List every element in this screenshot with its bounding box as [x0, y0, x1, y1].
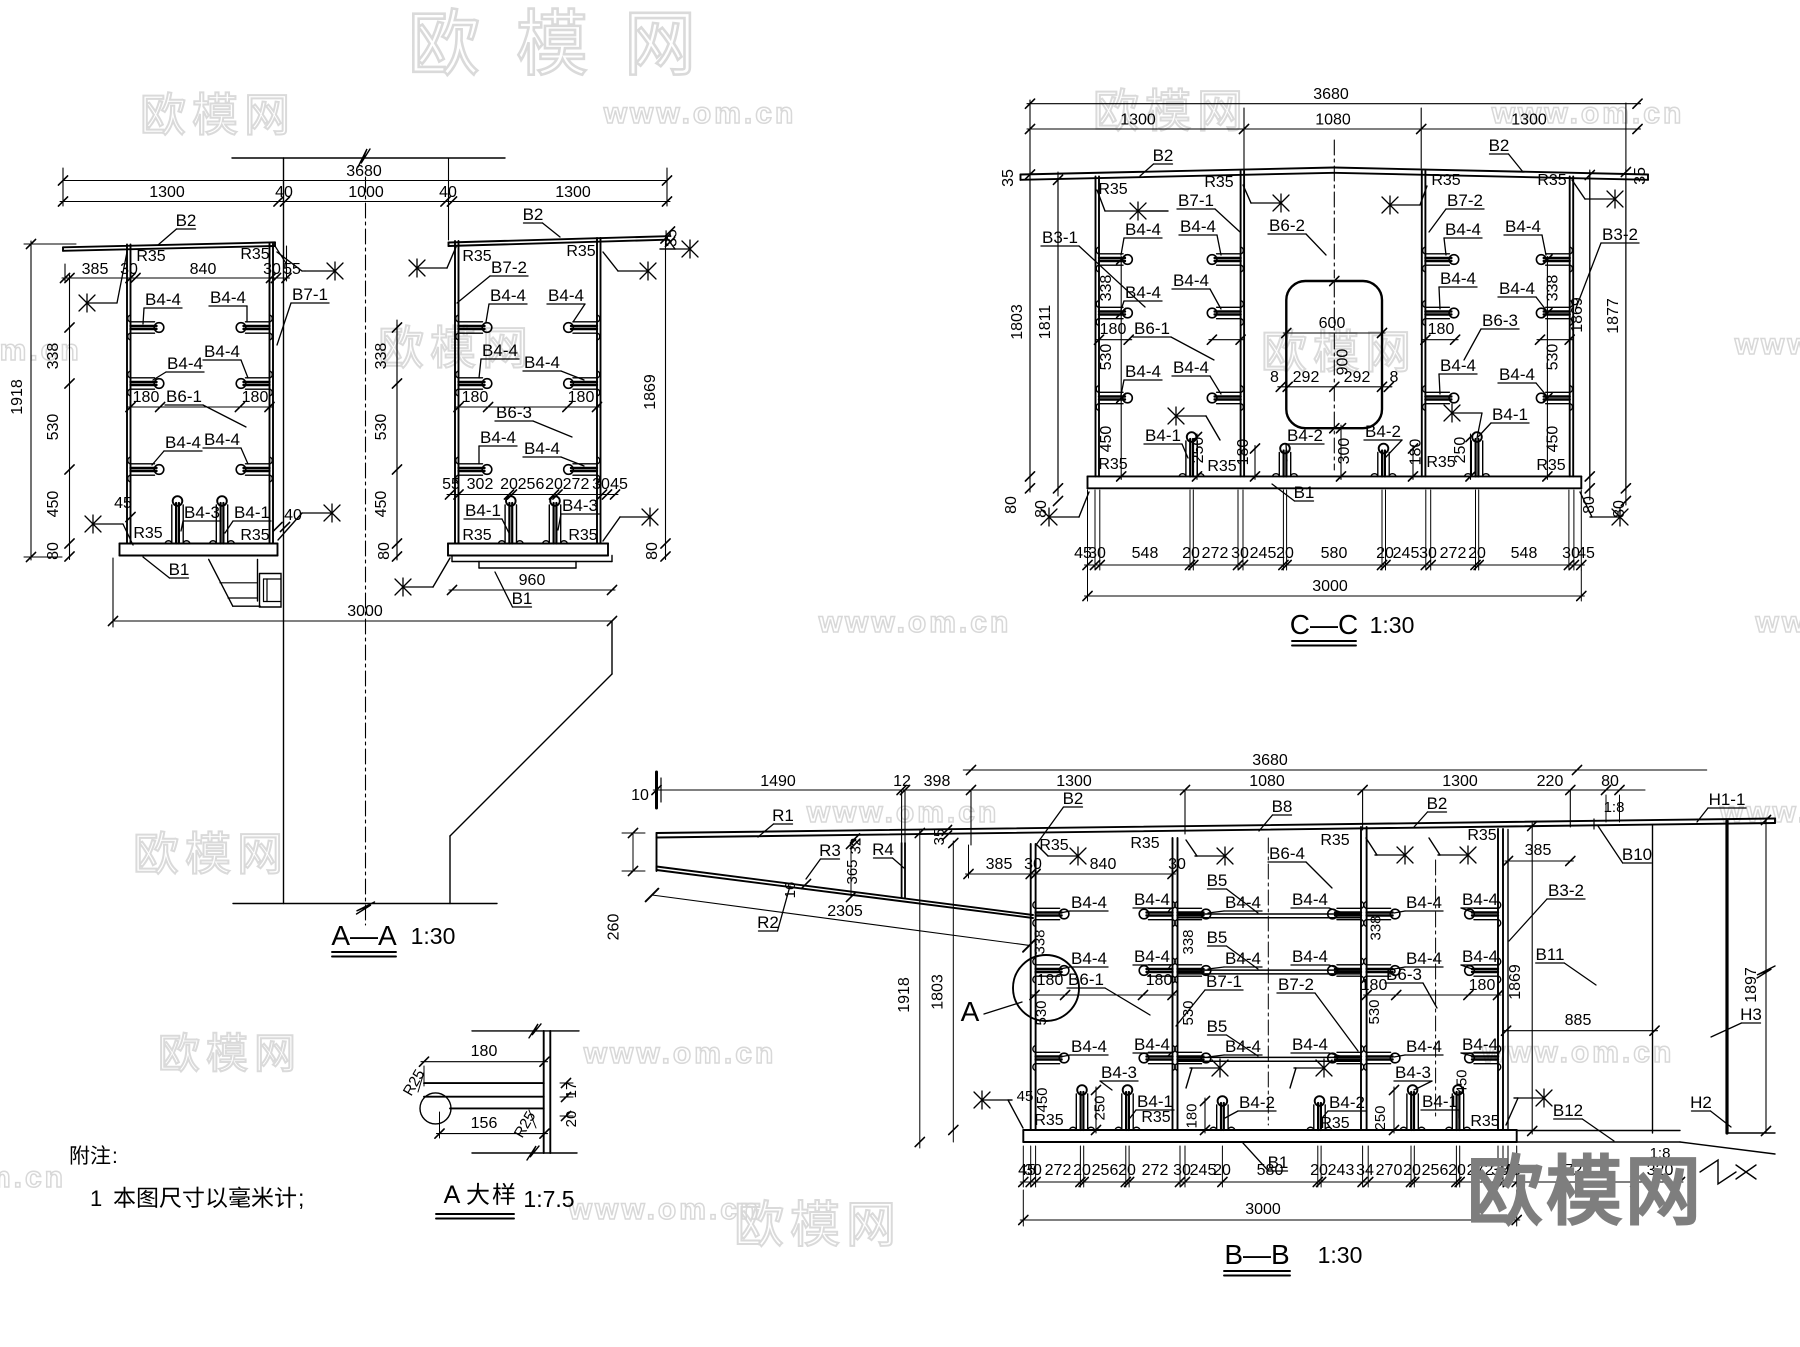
svg-text:B4-4: B4-4	[210, 288, 246, 307]
svg-text:55: 55	[442, 476, 460, 493]
svg-text:B4-4: B4-4	[482, 341, 518, 360]
svg-text:548: 548	[1511, 545, 1538, 562]
svg-text:B4-4: B4-4	[167, 354, 203, 373]
svg-text:580: 580	[1321, 545, 1348, 562]
svg-text:B4-1: B4-1	[465, 501, 501, 520]
svg-text:B7-2: B7-2	[1447, 191, 1483, 210]
svg-text:17: 17	[563, 1082, 580, 1099]
svg-text:1300: 1300	[1442, 773, 1478, 790]
svg-text:260: 260	[606, 914, 623, 941]
svg-text:272: 272	[1045, 1162, 1072, 1179]
svg-text:32: 32	[847, 838, 864, 855]
svg-text:20: 20	[1073, 1162, 1091, 1179]
svg-text:30: 30	[1024, 856, 1042, 873]
svg-text:30: 30	[592, 476, 610, 493]
svg-text:B11: B11	[1536, 945, 1565, 964]
svg-text:www: www	[1754, 606, 1800, 639]
svg-text:B1: B1	[1294, 483, 1315, 502]
svg-text:256: 256	[1092, 1162, 1119, 1179]
svg-text:450: 450	[1098, 426, 1115, 453]
svg-text:B4-4: B4-4	[524, 439, 560, 458]
svg-text:8: 8	[1270, 369, 1279, 386]
svg-text:245: 245	[1250, 545, 1277, 562]
svg-text:;: ;	[298, 1185, 304, 1211]
svg-text:B4-4: B4-4	[1440, 356, 1476, 375]
svg-text:1803: 1803	[1009, 304, 1026, 340]
svg-text:B4-4: B4-4	[145, 290, 181, 309]
svg-text:B4-3: B4-3	[1101, 1063, 1137, 1082]
svg-text:338: 338	[373, 343, 390, 370]
svg-text:180: 180	[1146, 972, 1173, 989]
svg-text:20: 20	[545, 476, 563, 493]
svg-text:B6-1: B6-1	[166, 387, 202, 406]
svg-text:B4-4: B4-4	[1134, 947, 1170, 966]
svg-text:35: 35	[931, 829, 948, 846]
svg-text:3680: 3680	[1252, 752, 1288, 769]
svg-text:B4-4: B4-4	[1134, 890, 1170, 909]
svg-text:450: 450	[45, 491, 62, 518]
svg-text:1080: 1080	[1315, 112, 1351, 129]
svg-text:3000: 3000	[347, 603, 383, 620]
svg-text:1803: 1803	[930, 974, 947, 1010]
svg-text:B4-4: B4-4	[1180, 217, 1216, 236]
svg-text:250: 250	[1092, 1095, 1109, 1120]
svg-text:R35: R35	[240, 246, 269, 263]
svg-text:B7-1: B7-1	[1178, 191, 1214, 210]
svg-text:B4-1: B4-1	[1422, 1092, 1458, 1111]
svg-text:45: 45	[610, 476, 628, 493]
svg-text:35: 35	[1632, 167, 1649, 185]
svg-text:45: 45	[1577, 545, 1595, 562]
svg-text:R35: R35	[1467, 827, 1496, 844]
svg-text:272: 272	[1142, 1162, 1169, 1179]
svg-text:20: 20	[1118, 1162, 1136, 1179]
svg-text:B7-2: B7-2	[491, 258, 527, 277]
svg-text:1490: 1490	[760, 773, 796, 790]
svg-text:840: 840	[1090, 856, 1117, 873]
svg-text:B4-4: B4-4	[548, 286, 584, 305]
svg-text:580: 580	[1257, 1162, 1284, 1179]
svg-text:1918: 1918	[896, 977, 913, 1013]
svg-text:530: 530	[1366, 999, 1383, 1024]
svg-text:R3: R3	[819, 841, 841, 860]
svg-text:292: 292	[1293, 369, 1320, 386]
svg-text:450: 450	[373, 491, 390, 518]
svg-text:450: 450	[1034, 1087, 1051, 1112]
svg-text:30: 30	[263, 261, 281, 278]
svg-text:B6-3: B6-3	[1482, 311, 1518, 330]
svg-text:H2: H2	[1690, 1093, 1712, 1112]
svg-text:338: 338	[45, 343, 62, 370]
svg-text:B4-1: B4-1	[234, 503, 270, 522]
svg-text:B2: B2	[1153, 146, 1174, 165]
svg-text:www.om.cn: www.om.cn	[806, 796, 1000, 829]
svg-text:530: 530	[1545, 344, 1562, 371]
svg-text:20: 20	[500, 476, 518, 493]
svg-text:530: 530	[1098, 344, 1115, 371]
svg-text:80: 80	[45, 542, 62, 560]
svg-text:256: 256	[518, 476, 545, 493]
svg-text:20: 20	[1276, 545, 1294, 562]
svg-text:m.cn: m.cn	[0, 1161, 66, 1194]
svg-text:180: 180	[568, 389, 595, 406]
svg-text:B4-1: B4-1	[1492, 405, 1528, 424]
svg-text:12: 12	[893, 773, 911, 790]
svg-text:2305: 2305	[827, 903, 863, 920]
svg-text:R35: R35	[1039, 837, 1068, 854]
svg-text:www.om.cn: www.om.cn	[1481, 1036, 1675, 1069]
svg-text:R35: R35	[1470, 1113, 1499, 1130]
svg-text:1869: 1869	[1569, 297, 1586, 333]
svg-text:R35: R35	[1431, 172, 1460, 189]
svg-text:1:8: 1:8	[1604, 799, 1625, 816]
svg-text:A: A	[961, 996, 980, 1027]
svg-text:1:30: 1:30	[1318, 1242, 1363, 1268]
svg-text:270: 270	[1376, 1162, 1403, 1179]
svg-text:B4-4: B4-4	[1440, 269, 1476, 288]
svg-text:1:30: 1:30	[1370, 612, 1415, 638]
svg-text:10: 10	[631, 787, 649, 804]
svg-text:530: 530	[373, 414, 390, 441]
svg-text:B—B: B—B	[1224, 1239, 1289, 1270]
svg-text:80: 80	[376, 542, 393, 560]
svg-text:600: 600	[1319, 315, 1346, 332]
svg-text:300: 300	[1336, 438, 1353, 465]
svg-text:www.om.cn: www.om.cn	[818, 606, 1012, 639]
svg-text:B4-3: B4-3	[184, 503, 220, 522]
svg-text:30: 30	[1088, 545, 1106, 562]
svg-text:20: 20	[1448, 1162, 1466, 1179]
svg-text:885: 885	[1565, 1012, 1592, 1029]
svg-text:250: 250	[1372, 1105, 1389, 1130]
svg-text:B4-1: B4-1	[1145, 426, 1181, 445]
svg-text:B4-4: B4-4	[1292, 947, 1328, 966]
svg-text:180: 180	[1184, 1103, 1201, 1128]
svg-text:R35: R35	[133, 525, 162, 542]
svg-text:40: 40	[284, 507, 302, 524]
svg-text:80: 80	[1611, 500, 1628, 518]
svg-text:385: 385	[1525, 842, 1552, 859]
svg-text:B3-2: B3-2	[1602, 225, 1638, 244]
svg-text:3000: 3000	[1312, 578, 1348, 595]
svg-text:45: 45	[114, 495, 132, 512]
svg-text:R35: R35	[1320, 1115, 1349, 1132]
svg-text:1:30: 1:30	[411, 923, 456, 949]
svg-text:B4-4: B4-4	[1125, 362, 1161, 381]
svg-text:B4-4: B4-4	[1134, 1035, 1170, 1054]
svg-text:256: 256	[1422, 1162, 1449, 1179]
svg-text:www.om.cn: www.om.cn	[568, 1193, 762, 1226]
svg-text:180: 180	[1361, 977, 1388, 994]
svg-text:B4-4: B4-4	[1292, 890, 1328, 909]
svg-text:R35: R35	[568, 527, 597, 544]
svg-text:840: 840	[190, 261, 217, 278]
svg-text:R35: R35	[1141, 1109, 1170, 1126]
svg-text:B4-4: B4-4	[490, 286, 526, 305]
svg-text:250: 250	[1190, 437, 1207, 464]
svg-text:1897: 1897	[1743, 967, 1760, 1003]
svg-text:B4-4: B4-4	[1125, 220, 1161, 239]
svg-text:B4-4: B4-4	[1499, 365, 1535, 384]
svg-text:B8: B8	[1272, 797, 1293, 816]
svg-text:80: 80	[1033, 500, 1050, 518]
svg-text:302: 302	[467, 476, 494, 493]
svg-text:180: 180	[471, 1043, 498, 1060]
svg-text:www.om.cn: www.om.cn	[583, 1037, 777, 1070]
svg-text:20: 20	[1468, 545, 1486, 562]
svg-text:B7-1: B7-1	[292, 285, 328, 304]
svg-text:8: 8	[1390, 369, 1399, 386]
svg-text:55: 55	[283, 261, 301, 278]
svg-text:30: 30	[1173, 1162, 1191, 1179]
svg-text:R1: R1	[772, 806, 794, 825]
svg-text:20: 20	[1213, 1162, 1231, 1179]
svg-text:960: 960	[519, 572, 546, 589]
svg-text:B5: B5	[1207, 928, 1228, 947]
svg-text::: :	[112, 1145, 118, 1168]
svg-text:40: 40	[275, 184, 293, 201]
svg-text:272: 272	[1440, 545, 1467, 562]
svg-text:1: 1	[90, 1186, 102, 1211]
svg-text:B4-4: B4-4	[1071, 1037, 1107, 1056]
svg-text:B4-2: B4-2	[1239, 1093, 1275, 1112]
svg-text:R35: R35	[1098, 181, 1127, 198]
svg-text:B4-4: B4-4	[165, 433, 201, 452]
svg-text:1:7.5: 1:7.5	[523, 1186, 574, 1212]
svg-text:B4-4: B4-4	[1292, 1035, 1328, 1054]
svg-text:35: 35	[1000, 169, 1017, 187]
svg-text:B4-4: B4-4	[480, 428, 516, 447]
svg-text:1300: 1300	[1511, 112, 1547, 129]
svg-text:R35: R35	[240, 527, 269, 544]
svg-text:1300: 1300	[149, 184, 185, 201]
svg-text:B12: B12	[1553, 1101, 1583, 1120]
svg-text:385: 385	[82, 261, 109, 278]
svg-text:B4-4: B4-4	[204, 342, 240, 361]
svg-text:B4-4: B4-4	[1462, 890, 1498, 909]
svg-text:30: 30	[1231, 545, 1249, 562]
svg-text:H1-1: H1-1	[1709, 790, 1746, 809]
svg-text:B6-2: B6-2	[1269, 216, 1305, 235]
svg-text:B4-2: B4-2	[1287, 426, 1323, 445]
svg-text:180: 180	[1469, 977, 1496, 994]
svg-text:B2: B2	[176, 211, 197, 230]
svg-text:B4-4: B4-4	[1225, 1037, 1261, 1056]
svg-text:20: 20	[1182, 545, 1200, 562]
svg-text:R35: R35	[1426, 454, 1455, 471]
svg-text:450: 450	[1545, 426, 1562, 453]
svg-text:B3-2: B3-2	[1548, 881, 1584, 900]
svg-text:1300: 1300	[1056, 773, 1092, 790]
svg-text:B2: B2	[1489, 136, 1510, 155]
svg-text:R35: R35	[1207, 458, 1236, 475]
svg-text:B2: B2	[523, 205, 544, 224]
svg-text:www.om.cn: www.om.cn	[603, 97, 797, 130]
svg-text:B4-4: B4-4	[1225, 893, 1261, 912]
svg-text:292: 292	[1344, 369, 1371, 386]
svg-text:B2: B2	[1063, 789, 1084, 808]
svg-text:180: 180	[1100, 321, 1127, 338]
svg-text:B4-4: B4-4	[204, 430, 240, 449]
svg-text:1811: 1811	[1037, 305, 1054, 340]
svg-text:H3: H3	[1740, 1005, 1762, 1024]
svg-text:B4-4: B4-4	[1406, 893, 1442, 912]
svg-text:80: 80	[1581, 496, 1598, 514]
svg-text:30: 30	[1024, 1162, 1042, 1179]
svg-text:45: 45	[1017, 1088, 1034, 1105]
svg-text:35: 35	[664, 229, 681, 247]
svg-text:1080: 1080	[1249, 773, 1285, 790]
svg-text:B4-3: B4-3	[562, 496, 598, 515]
svg-text:338: 338	[1545, 275, 1562, 302]
svg-text:R35: R35	[1098, 456, 1127, 473]
svg-text:A—A: A—A	[331, 920, 397, 951]
svg-text:20: 20	[1310, 1162, 1328, 1179]
svg-text:B4-4: B4-4	[1462, 947, 1498, 966]
svg-text:R35: R35	[1537, 172, 1566, 189]
svg-text:338: 338	[1098, 275, 1115, 302]
svg-text:180: 180	[242, 389, 269, 406]
svg-text:548: 548	[1132, 545, 1159, 562]
svg-text:B4-4: B4-4	[1071, 949, 1107, 968]
svg-text:R35: R35	[1536, 457, 1565, 474]
svg-text:B4-3: B4-3	[1395, 1063, 1431, 1082]
svg-text:B6-3: B6-3	[496, 403, 532, 422]
svg-text:B4-1: B4-1	[1137, 1092, 1173, 1111]
svg-text:R35: R35	[462, 527, 491, 544]
svg-text:1869: 1869	[642, 374, 659, 410]
svg-text:530: 530	[1180, 1000, 1197, 1025]
svg-text:530: 530	[1033, 1000, 1050, 1025]
svg-text:B6-1: B6-1	[1134, 319, 1170, 338]
svg-text:338: 338	[1368, 915, 1385, 940]
svg-text:B4-4: B4-4	[1071, 893, 1107, 912]
svg-text:272: 272	[1202, 545, 1229, 562]
svg-text:30: 30	[1168, 856, 1186, 873]
svg-text:B4-4: B4-4	[1125, 283, 1161, 302]
svg-text:B4-2: B4-2	[1365, 422, 1401, 441]
svg-text:338: 338	[1180, 929, 1197, 954]
svg-text:R2: R2	[757, 913, 779, 932]
svg-text:B4-4: B4-4	[1505, 217, 1541, 236]
svg-text:180: 180	[133, 389, 160, 406]
svg-text:1918: 1918	[9, 379, 26, 415]
svg-text:1000: 1000	[348, 184, 384, 201]
svg-text:R35: R35	[1034, 1112, 1063, 1129]
svg-text:3680: 3680	[346, 163, 382, 180]
svg-text:A: A	[444, 1181, 461, 1209]
svg-text:B4-4: B4-4	[1499, 279, 1535, 298]
svg-text:272: 272	[563, 476, 590, 493]
svg-text:180: 180	[1408, 439, 1425, 466]
svg-text:338: 338	[1032, 929, 1049, 954]
svg-text:243: 243	[1328, 1162, 1355, 1179]
svg-text:B7-2: B7-2	[1278, 975, 1314, 994]
svg-text:B5: B5	[1207, 1017, 1228, 1036]
svg-text:B4-4: B4-4	[524, 353, 560, 372]
svg-text:B6-4: B6-4	[1269, 844, 1305, 863]
svg-text:B2: B2	[1427, 794, 1448, 813]
svg-text:180: 180	[462, 389, 489, 406]
svg-text:R35: R35	[1320, 832, 1349, 849]
svg-text:B7-1: B7-1	[1206, 972, 1242, 991]
svg-text:B4-4: B4-4	[1225, 949, 1261, 968]
svg-text:34: 34	[1356, 1162, 1374, 1179]
svg-text:B1: B1	[169, 560, 190, 579]
svg-text:40: 40	[439, 184, 457, 201]
svg-text:180: 180	[1428, 321, 1455, 338]
svg-text:450: 450	[1453, 1069, 1470, 1094]
svg-text:B1: B1	[512, 589, 533, 608]
svg-text:B4-4: B4-4	[1445, 220, 1481, 239]
svg-text:R4: R4	[872, 840, 894, 859]
svg-text:C—C: C—C	[1290, 609, 1358, 640]
svg-text:220: 220	[1537, 773, 1564, 790]
svg-text:1877: 1877	[1605, 298, 1622, 334]
svg-text:80: 80	[1601, 773, 1619, 790]
svg-text:365: 365	[844, 859, 861, 884]
svg-text:B4-4: B4-4	[1406, 1037, 1442, 1056]
svg-text:B10: B10	[1622, 845, 1652, 864]
svg-text:B3-1: B3-1	[1042, 228, 1078, 247]
svg-text:385: 385	[986, 856, 1013, 873]
svg-text:80: 80	[644, 542, 661, 560]
svg-text:3680: 3680	[1313, 86, 1349, 103]
svg-text:B4-4: B4-4	[1173, 358, 1209, 377]
svg-text:1869: 1869	[1507, 964, 1524, 1000]
svg-text:B4-2: B4-2	[1329, 1093, 1365, 1112]
svg-text:B6-1: B6-1	[1068, 970, 1104, 989]
svg-text:30: 30	[120, 261, 138, 278]
svg-text:R35: R35	[136, 248, 165, 265]
svg-text:30: 30	[1419, 545, 1437, 562]
svg-text:16: 16	[782, 882, 799, 899]
svg-text:1300: 1300	[555, 184, 591, 201]
svg-text:80: 80	[1003, 496, 1020, 514]
svg-text:B4-4: B4-4	[1173, 271, 1209, 290]
svg-text:20: 20	[1376, 545, 1394, 562]
svg-text:20: 20	[1403, 1162, 1421, 1179]
svg-text:180: 180	[1037, 972, 1064, 989]
svg-text:R35: R35	[566, 243, 595, 260]
svg-text:www.o: www.o	[1734, 328, 1800, 361]
svg-text:R35: R35	[462, 248, 491, 265]
svg-text:1300: 1300	[1120, 112, 1156, 129]
svg-text:156: 156	[471, 1115, 498, 1132]
svg-text:R35: R35	[1130, 835, 1159, 852]
svg-text:245: 245	[1393, 545, 1420, 562]
svg-text:398: 398	[924, 773, 951, 790]
svg-text:R35: R35	[1204, 174, 1233, 191]
svg-text:B5: B5	[1207, 871, 1228, 890]
svg-text:B4-4: B4-4	[1406, 949, 1442, 968]
svg-text:B4-4: B4-4	[1462, 1035, 1498, 1054]
svg-text:180: 180	[1235, 439, 1252, 466]
svg-text:530: 530	[45, 414, 62, 441]
svg-text:20: 20	[563, 1111, 580, 1128]
svg-text:3000: 3000	[1245, 1201, 1281, 1218]
